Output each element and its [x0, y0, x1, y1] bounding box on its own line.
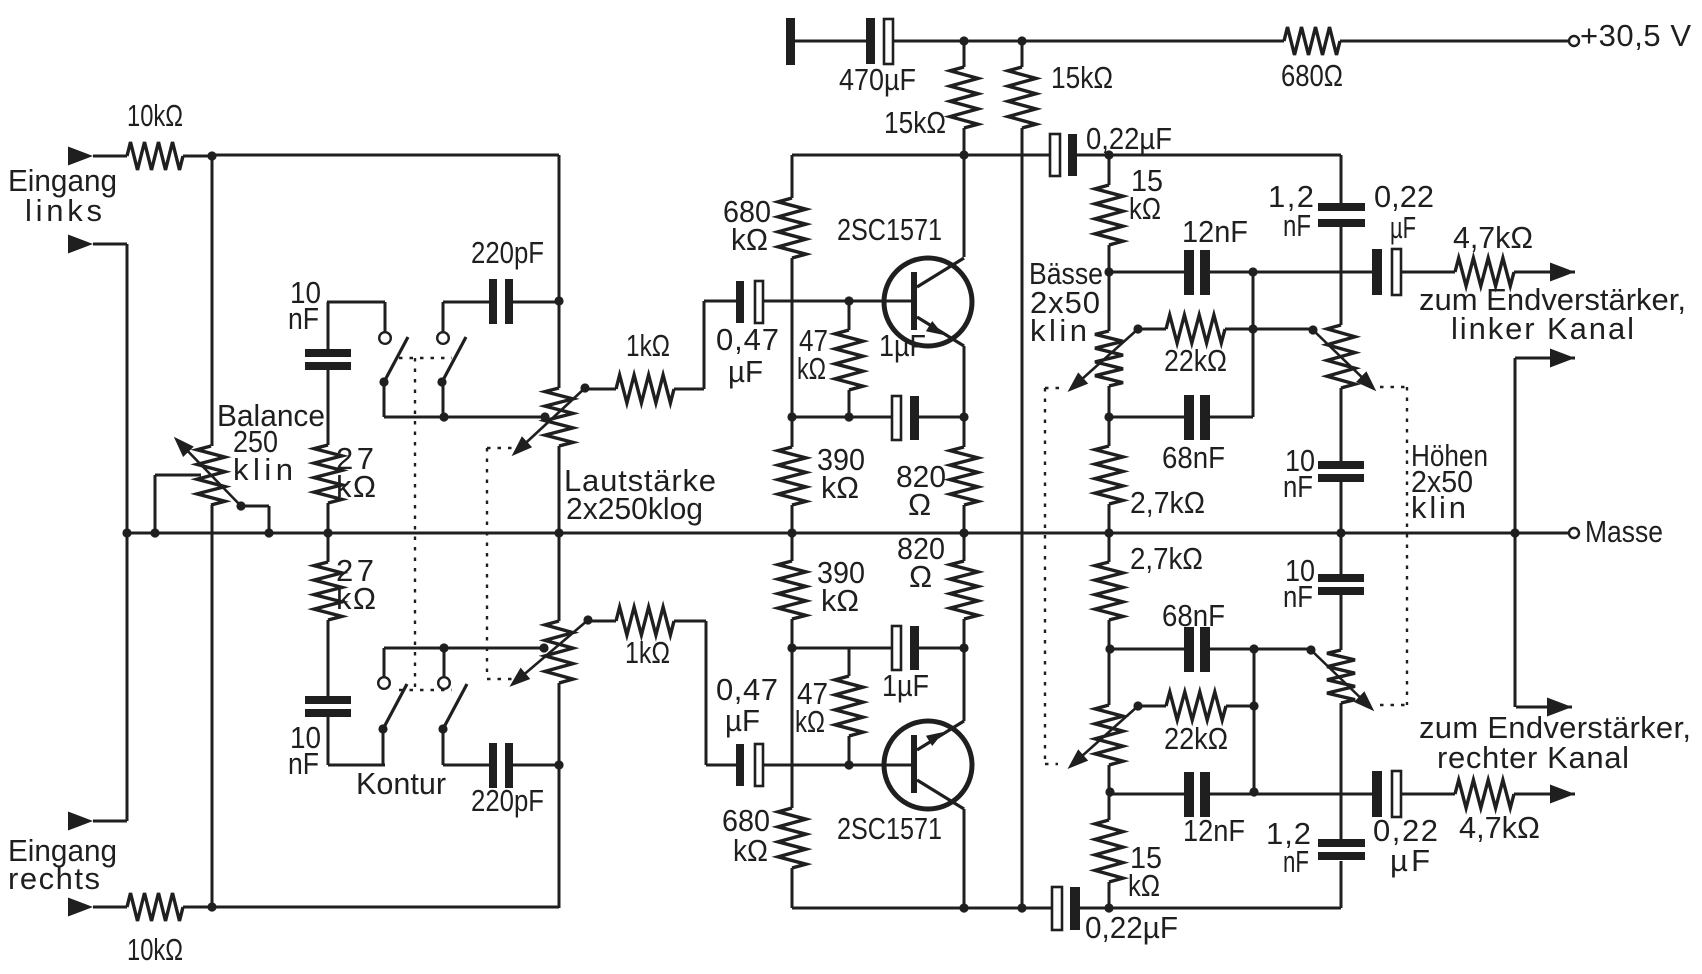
svg-text:0,47: 0,47: [716, 672, 778, 707]
svg-text:22kΩ: 22kΩ: [1164, 721, 1228, 756]
svg-text:kΩ: kΩ: [797, 351, 826, 386]
svg-text:4,7kΩ: 4,7kΩ: [1459, 810, 1540, 845]
svg-text:kΩ: kΩ: [821, 470, 859, 505]
svg-text:12nF: 12nF: [1183, 813, 1245, 848]
svg-text:15kΩ: 15kΩ: [1051, 60, 1113, 95]
svg-text:470µF: 470µF: [839, 62, 916, 97]
svg-text:kΩ: kΩ: [795, 704, 825, 739]
svg-text:nF: nF: [288, 301, 319, 336]
svg-text:+30,5 V: +30,5 V: [1580, 18, 1691, 53]
svg-text:klin: klin: [1030, 313, 1087, 348]
svg-text:µF: µF: [1390, 210, 1416, 245]
svg-text:kΩ: kΩ: [731, 222, 768, 257]
svg-text:nF: nF: [1283, 208, 1311, 243]
svg-text:kΩ: kΩ: [1128, 868, 1160, 903]
svg-text:0,47: 0,47: [716, 322, 779, 357]
svg-text:kΩ: kΩ: [336, 469, 376, 504]
svg-text:kΩ: kΩ: [1129, 191, 1161, 226]
svg-text:1kΩ: 1kΩ: [625, 635, 670, 670]
svg-text:12nF: 12nF: [1182, 214, 1248, 249]
svg-text:nF: nF: [1283, 469, 1313, 504]
svg-text:2SC1571: 2SC1571: [837, 212, 942, 247]
svg-text:nF: nF: [1283, 844, 1309, 879]
svg-text:1µF: 1µF: [882, 668, 929, 703]
svg-text:220pF: 220pF: [471, 235, 544, 270]
svg-text:kΩ: kΩ: [733, 833, 768, 868]
svg-text:Kontur: Kontur: [356, 766, 446, 801]
svg-text:4,7kΩ: 4,7kΩ: [1453, 220, 1533, 255]
svg-text:kΩ: kΩ: [821, 583, 859, 618]
svg-text:nF: nF: [288, 746, 319, 781]
svg-text:2SC1571: 2SC1571: [837, 811, 942, 846]
svg-text:2x250klog: 2x250klog: [566, 491, 703, 526]
svg-text:0,22: 0,22: [1374, 179, 1434, 214]
svg-text:Ω: Ω: [908, 487, 931, 522]
svg-text:15kΩ: 15kΩ: [884, 105, 946, 140]
svg-text:220pF: 220pF: [471, 783, 544, 818]
svg-text:10kΩ: 10kΩ: [127, 932, 183, 967]
svg-text:µF: µF: [728, 354, 763, 389]
svg-text:links: links: [25, 193, 102, 228]
svg-text:68nF: 68nF: [1162, 598, 1225, 633]
svg-text:2,7kΩ: 2,7kΩ: [1130, 485, 1205, 520]
svg-text:68nF: 68nF: [1162, 440, 1225, 475]
svg-text:nF: nF: [1283, 579, 1313, 614]
svg-text:2,7kΩ: 2,7kΩ: [1130, 541, 1203, 576]
svg-text:rechts: rechts: [8, 861, 100, 896]
svg-text:10kΩ: 10kΩ: [127, 98, 183, 133]
svg-text:680Ω: 680Ω: [1281, 58, 1343, 93]
svg-text:rechter Kanal: rechter Kanal: [1437, 740, 1629, 775]
svg-text:Ω: Ω: [909, 559, 932, 594]
svg-text:1µF: 1µF: [879, 328, 926, 363]
svg-text:1kΩ: 1kΩ: [626, 328, 670, 363]
svg-text:Masse: Masse: [1585, 514, 1663, 549]
svg-text:0,22µF: 0,22µF: [1086, 121, 1172, 156]
svg-text:µF: µF: [725, 703, 760, 738]
svg-text:22kΩ: 22kΩ: [1164, 343, 1227, 378]
svg-text:0,22µF: 0,22µF: [1085, 910, 1178, 945]
svg-text:klin: klin: [1411, 490, 1466, 525]
svg-text:kΩ: kΩ: [336, 581, 376, 616]
